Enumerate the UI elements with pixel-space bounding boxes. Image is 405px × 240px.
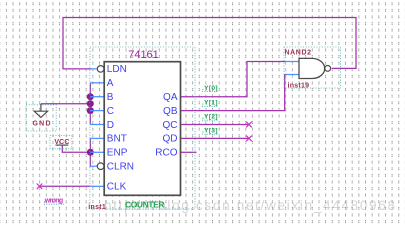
wire QB to NAND input 2 — [181, 75, 287, 111]
wire QD dangling — [181, 137, 250, 139]
svg-text:QC: QC — [163, 120, 178, 131]
wire QC dangling — [181, 124, 250, 126]
CLRN inversion bubble — [97, 163, 104, 170]
pin stub A — [90, 82, 104, 84]
VCC symbol bar — [56, 144, 69, 146]
X cross QC — [246, 122, 252, 128]
svg-text:B: B — [107, 92, 114, 103]
pin stub CLRN — [90, 165, 97, 167]
wire RCO stub — [181, 151, 197, 153]
svg-text:BNT: BNT — [107, 134, 127, 145]
X cross CLK — [37, 184, 43, 190]
wire VCC to tie — [62, 145, 90, 152]
wire NAND output feedback loop to LDN — [63, 18, 356, 69]
svg-text:D: D — [107, 120, 114, 131]
ground symbol — [34, 104, 47, 118]
junction dot B — [87, 93, 94, 100]
svg-text:CLK: CLK — [107, 182, 127, 193]
svg-text:C: C — [107, 106, 114, 117]
svg-text:RCO: RCO — [155, 148, 177, 159]
NAND2 selection dashed box — [284, 47, 341, 88]
NAND input stub 2 — [285, 74, 299, 76]
74161 selection dashed box — [90, 47, 195, 209]
svg-text:GND: GND — [33, 121, 51, 128]
svg-text:CLRN: CLRN — [107, 162, 134, 173]
svg-text:74161: 74161 — [128, 49, 159, 61]
junction dot ENP — [87, 149, 94, 156]
svg-text:.Y[2]: .Y[2] — [202, 114, 218, 121]
pin stub LDN — [90, 68, 97, 70]
svg-text:inst1: inst1 — [88, 204, 106, 211]
wire CLK dangling — [40, 185, 91, 187]
pin name texts right — [155, 92, 178, 159]
svg-text:inst19: inst19 — [288, 82, 310, 89]
wire A-B-C-D tie vertical — [89, 83, 91, 125]
pin stub CLK — [90, 185, 104, 187]
nand output bubble — [325, 66, 331, 72]
svg-text:.Y[1]: .Y[1] — [202, 100, 218, 107]
wire GND to tie — [41, 103, 90, 105]
svg-text:A: A — [107, 78, 114, 89]
svg-text:.Y[0]: .Y[0] — [202, 85, 218, 92]
wire QA to NAND input 1 — [181, 62, 287, 97]
VCC selection dashed box — [50, 136, 72, 149]
pin stub C — [90, 110, 104, 112]
pin stub D — [90, 124, 104, 126]
pin stub BNT — [90, 137, 104, 139]
svg-text:.wrong: .wrong — [44, 198, 64, 205]
svg-text:.Y[3]: .Y[3] — [202, 127, 218, 134]
junction dot GND join — [87, 100, 94, 107]
LDN inversion bubble — [97, 66, 104, 73]
junction dot C — [87, 107, 94, 114]
NAND input stub 1 — [285, 61, 299, 63]
svg-text:NAND2: NAND2 — [285, 50, 312, 57]
svg-text:QD: QD — [163, 134, 178, 145]
GND selection dashed box — [26, 105, 56, 131]
svg-text:QA: QA — [163, 92, 178, 103]
svg-text:LDN: LDN — [107, 64, 127, 75]
svg-text:QB: QB — [163, 106, 178, 117]
svg-text:ENP: ENP — [107, 148, 128, 159]
X cross QD — [246, 136, 252, 142]
pin stub ENP — [90, 151, 104, 153]
nand gate U inst19 body — [299, 58, 325, 78]
wire BNT-ENP-CLRN tie vertical — [89, 138, 92, 166]
pin name texts left — [107, 64, 134, 192]
74161 chip body U inst1 — [104, 62, 180, 196]
pin stub B — [90, 96, 104, 98]
svg-text:COUNTER: COUNTER — [125, 200, 165, 210]
